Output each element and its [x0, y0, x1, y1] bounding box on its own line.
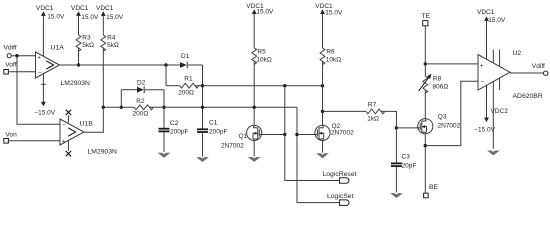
- power VDC1 arrow (U2): [484, 16, 489, 21]
- transistor Q2 2N7002: [315, 125, 330, 140]
- power VDC1 arrow (R5): [252, 9, 257, 14]
- node D1 left junction: [164, 63, 167, 66]
- svg-text:806Ω: 806Ω: [433, 84, 449, 91]
- port Vdiff (input, circle): [7, 54, 11, 58]
- wire D1 anode: [166, 64, 180, 66]
- op-amp U1B body: [60, 119, 84, 145]
- wire D2 cathode: [145, 89, 164, 91]
- node R4/U1B output junction: [102, 106, 105, 109]
- resistor R6: [320, 48, 325, 65]
- svg-text:VDC1: VDC1: [96, 5, 114, 12]
- node A / LogicReset branch: [283, 84, 286, 87]
- wire D1/R1 left link: [165, 65, 167, 86]
- svg-text:1kΩ: 1kΩ: [367, 116, 379, 123]
- wire D1 cathode to right node: [188, 64, 203, 66]
- wire Q3 source down to BE: [424, 134, 426, 193]
- resistor R1: [180, 83, 199, 88]
- wire D2 anode: [121, 89, 137, 91]
- svg-text:5kΩ: 5kΩ: [82, 42, 94, 49]
- U2 top pin stub 2: [499, 50, 501, 67]
- port LogicReset tag: [340, 178, 349, 184]
- wire Q2 source to ground: [322, 141, 324, 153]
- svg-text:R6: R6: [326, 48, 335, 55]
- node A / R6 junction: [321, 84, 324, 87]
- svg-text:LM2903N: LM2903N: [61, 80, 91, 87]
- wire C3 to ground: [395, 167, 397, 193]
- svg-text:15.0V: 15.0V: [256, 9, 274, 16]
- resistor R3: [76, 35, 81, 51]
- op-amp U1A body: [36, 52, 60, 78]
- svg-text:−15.0V: −15.0V: [474, 126, 495, 133]
- svg-text:Q3: Q3: [438, 114, 447, 121]
- node Q2 gate junction: [295, 133, 298, 136]
- ground below Q1: [248, 157, 261, 162]
- svg-text:VDC1: VDC1: [71, 5, 89, 12]
- power VDC1 arrow (U1A): [41, 11, 46, 16]
- wire Voff to U1A - input: [8, 71, 35, 73]
- wire U1B output up to node B: [84, 107, 103, 132]
- node C1 top junction: [201, 106, 204, 109]
- transistor Q3 2N7002: [418, 119, 433, 134]
- wire U2 V- pin down: [486, 85, 488, 118]
- resistor R7: [366, 109, 385, 114]
- wire Q3 gate: [396, 127, 417, 129]
- op-amp U2 body: [478, 55, 510, 91]
- svg-text:LogicSet: LogicSet: [327, 193, 354, 200]
- svg-text:C1: C1: [209, 119, 218, 126]
- node Q3 source junction: [424, 144, 427, 147]
- power VDC1 arrow (R4): [101, 11, 106, 16]
- wire Von to U1B + input: [8, 140, 60, 142]
- svg-text:5kΩ: 5kΩ: [107, 42, 119, 49]
- svg-text:Vdiff: Vdiff: [4, 44, 17, 51]
- svg-text:200Ω: 200Ω: [133, 111, 149, 118]
- transistor Q1 2N7002: [247, 125, 262, 140]
- port Vdiff output circle: [544, 71, 548, 75]
- svg-text:U1B: U1B: [80, 120, 94, 127]
- svg-text:R7: R7: [368, 101, 377, 108]
- capacitor C1 plates: [197, 128, 208, 130]
- svg-text:15.0V: 15.0V: [106, 14, 124, 21]
- ground below U2: [487, 151, 500, 156]
- svg-text:+: +: [62, 138, 66, 145]
- svg-text:R2: R2: [136, 98, 145, 105]
- port Voff (square): [4, 70, 9, 75]
- node D2/R2 right junction: [162, 106, 165, 109]
- wire node to R8: [424, 64, 426, 76]
- svg-text:−: −: [62, 122, 66, 129]
- node R5/node B junction: [253, 106, 256, 109]
- wire C3 top lead: [395, 128, 397, 163]
- wire VDC1 to R4: [102, 16, 104, 36]
- svg-text:+: +: [37, 54, 41, 61]
- wire D2 right link: [163, 90, 165, 129]
- svg-text:15.0V: 15.0V: [81, 14, 99, 21]
- wire R8 to Q3 drain: [424, 90, 426, 119]
- diode D2: [137, 87, 144, 93]
- diode D1: [180, 62, 187, 68]
- svg-text:10kΩ: 10kΩ: [326, 56, 341, 63]
- node TE/R8/U2+ junction: [424, 62, 427, 65]
- ground below C3: [390, 193, 403, 198]
- svg-text:AD620BR: AD620BR: [513, 93, 543, 100]
- U1B V- no-connect X: [66, 151, 71, 156]
- wire R4 down to node B: [102, 48, 104, 107]
- svg-text:2N7002: 2N7002: [438, 122, 461, 129]
- svg-text:Voff: Voff: [5, 61, 16, 68]
- svg-text:15.0V: 15.0V: [325, 9, 343, 16]
- port Von (square): [4, 139, 9, 144]
- power VDC1 arrow (R6): [320, 9, 325, 14]
- wire R7 left lead: [323, 110, 367, 112]
- port TE square: [423, 21, 428, 26]
- U1A V- pin tick: [41, 83, 46, 85]
- svg-text:R8: R8: [433, 75, 442, 82]
- svg-text:R5: R5: [257, 48, 266, 55]
- wire D2 left link: [120, 90, 122, 108]
- wire R1 left lead: [166, 85, 180, 87]
- node Q3 gate / C3 junction: [395, 126, 398, 129]
- node junction Vdiff: [15, 54, 18, 57]
- svg-text:Q1: Q1: [239, 133, 248, 140]
- wire R6 to Q2 drain: [322, 61, 324, 125]
- svg-text:200pF: 200pF: [209, 128, 227, 135]
- wire R7 right lead to Q3 gate node: [381, 111, 396, 128]
- U1B V+ no-connect X: [66, 110, 71, 115]
- svg-text:R4: R4: [107, 34, 116, 41]
- capacitor C2 plates: [159, 128, 170, 130]
- svg-text:U2: U2: [513, 50, 522, 57]
- svg-text:Vdiff: Vdiff: [532, 63, 545, 70]
- svg-text:−: −: [480, 79, 484, 86]
- resistor R2: [134, 105, 153, 110]
- svg-text:VDC1: VDC1: [477, 9, 495, 16]
- U2 bottom pin stub: [499, 78, 501, 90]
- svg-text:200pF: 200pF: [170, 128, 188, 135]
- port BE square: [424, 193, 429, 198]
- R8 wiper arrow: [419, 76, 431, 91]
- wire LogicReset riser: [285, 86, 340, 181]
- svg-text:10kΩ: 10kΩ: [256, 56, 271, 63]
- capacitor C3 plates: [391, 162, 402, 164]
- wire VDC1 to R6: [322, 14, 324, 49]
- svg-text:−15.0V: −15.0V: [34, 110, 55, 117]
- svg-text:BE: BE: [429, 184, 439, 191]
- wire Vdiff down to U1B: [17, 56, 60, 125]
- U1B comparator symbol: [68, 128, 75, 136]
- U1A comparator symbol: [46, 61, 53, 69]
- U2 top pin stub 1: [492, 50, 494, 64]
- svg-text:−: −: [38, 69, 42, 76]
- resistor R4: [101, 35, 106, 51]
- svg-text:LM2903N: LM2903N: [88, 149, 118, 156]
- node Q1 gate junction: [283, 133, 286, 136]
- svg-text:VDC1: VDC1: [36, 5, 54, 12]
- svg-text:R3: R3: [82, 34, 91, 41]
- svg-text:D1: D1: [181, 53, 190, 60]
- wire D1/R1 right link down to C1: [202, 65, 204, 129]
- svg-text:Von: Von: [5, 132, 17, 139]
- svg-text:20pF: 20pF: [402, 163, 417, 170]
- resistor R8 (variable): [423, 76, 428, 93]
- wire Q1 source to ground: [253, 141, 255, 157]
- wire C1 to ground: [202, 133, 204, 157]
- wire node B row right: [150, 106, 298, 108]
- wire U2 output: [510, 72, 544, 74]
- svg-text:LogicReset: LogicReset: [323, 171, 357, 178]
- wire TE node to U2 + input: [425, 63, 478, 65]
- wire Q3 source loop to U2 - input: [425, 81, 478, 145]
- wire Q2 gate: [297, 134, 315, 136]
- svg-text:+: +: [480, 62, 484, 69]
- svg-text:U1A: U1A: [51, 45, 65, 52]
- wire R5 to Q1 drain: [253, 61, 255, 125]
- svg-text:2N7002: 2N7002: [221, 142, 244, 149]
- wire U1A V- pin down: [42, 74, 44, 102]
- wire VDC1 to U1A V+ pin: [42, 16, 44, 57]
- resistor R5: [252, 48, 257, 65]
- wire VDC1 to R3: [78, 16, 80, 36]
- U1B V- pin stub: [67, 140, 69, 150]
- svg-text:15.0V: 15.0V: [47, 13, 65, 20]
- svg-text:C3: C3: [402, 154, 411, 161]
- wire VDC1 to U2 V+: [486, 20, 488, 59]
- power VDC2 arrow (U2): [484, 118, 489, 123]
- wire node A row: [203, 85, 323, 87]
- node R1 right junction: [201, 84, 204, 87]
- svg-text:15.0V: 15.0V: [488, 17, 506, 24]
- svg-text:R1: R1: [184, 75, 193, 82]
- U1B V+ pin stub: [67, 115, 69, 124]
- node R3/output junction: [77, 63, 80, 66]
- wire Vdiff to U1A + input: [11, 55, 35, 57]
- ground below C1: [196, 157, 209, 162]
- node D2 left junction: [120, 106, 123, 109]
- wire node B corner to LogicSet: [297, 107, 340, 202]
- power -15.0V arrow (U1A): [41, 102, 46, 107]
- node R6/R7 junction: [321, 110, 324, 113]
- svg-text:D2: D2: [137, 80, 146, 87]
- wire VDC1 to R5: [253, 14, 255, 48]
- wire TE down to node: [424, 26, 426, 64]
- wire R3 to U1A output row: [78, 48, 80, 65]
- wire R1 right lead / node A start: [195, 85, 203, 87]
- svg-text:TE: TE: [421, 13, 430, 20]
- power VDC1 arrow (R3): [76, 11, 81, 16]
- svg-text:200Ω: 200Ω: [178, 89, 194, 96]
- wire Q1 gate to LogicReset riser: [261, 134, 285, 136]
- ground below C2: [158, 153, 171, 158]
- svg-text:2N7002: 2N7002: [331, 129, 354, 136]
- wire U2 REF pin to ground: [492, 82, 494, 149]
- wire U1A output: [60, 64, 167, 66]
- wire node B row left: [103, 106, 134, 108]
- svg-text:C2: C2: [170, 120, 179, 127]
- ground below Q2: [316, 153, 329, 158]
- port LogicSet tag: [340, 200, 349, 206]
- wire C2 to ground: [163, 132, 165, 152]
